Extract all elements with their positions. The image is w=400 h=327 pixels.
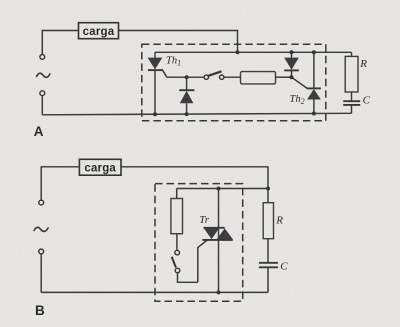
dashed enclosure B: [155, 184, 243, 302]
wire bottom rail B: [41, 291, 268, 293]
node D2 cathode / gate junction: [290, 75, 294, 79]
wire carga B right to R branch: [121, 167, 268, 189]
diode D2: [284, 52, 299, 77]
wire gate diagonal to Th2: [292, 77, 308, 88]
wire carga A right to feed corner: [119, 31, 238, 53]
node gate rail / D1 anode: [185, 75, 189, 79]
switch S contact top B: [175, 250, 180, 255]
svg-text:R: R: [275, 214, 283, 226]
wire switch bottom to gate B: [178, 273, 198, 282]
AC source terminal B top: [39, 200, 44, 205]
svg-text:B: B: [35, 303, 45, 318]
AC source terminal A top: [40, 55, 45, 60]
resistor R B: [263, 203, 273, 239]
load box "carga" B: [79, 159, 121, 175]
dashed enclosure A: [142, 44, 326, 121]
node Th1 cathode on bottom rail: [153, 112, 157, 116]
wire R to C A: [351, 92, 353, 100]
node D1 cathode on bottom rail: [185, 112, 189, 116]
svg-text:C: C: [363, 94, 371, 106]
svg-text:carga: carga: [84, 163, 116, 175]
node triac branch on top rail B: [217, 187, 221, 191]
triac Tr: [202, 189, 233, 293]
AC source terminal B bottom: [39, 249, 44, 254]
node Th2 branch on top rail: [312, 50, 316, 54]
switch S blade B: [172, 257, 176, 268]
wire source A bottom to bottom rail: [41, 96, 43, 115]
svg-text:R: R: [359, 58, 367, 70]
wire source B bottom to bottom rail: [40, 254, 42, 293]
node Th2 anode on bottom rail: [312, 112, 316, 116]
resistor R A: [345, 56, 358, 92]
capacitor C B: [259, 263, 278, 268]
node D2 anode on top rail: [290, 50, 294, 54]
resistor gate A: [241, 72, 276, 84]
wire carga B left to source: [41, 167, 79, 200]
wire top rail B: [177, 188, 268, 190]
wire resistor to node D2 A: [276, 76, 292, 78]
capacitor C A: [343, 101, 360, 105]
node triac on bottom rail B: [217, 290, 221, 294]
load box "carga" A: [79, 23, 119, 39]
wire C to bottom rail B: [267, 268, 269, 292]
wire top rail corner to R A: [351, 52, 353, 56]
svg-text:A: A: [34, 124, 44, 139]
wire switch to resistor A: [224, 76, 241, 78]
thyristor Th1: [148, 52, 167, 114]
wire carga A left to source: [42, 31, 78, 55]
wire corner to gate resistor B: [176, 189, 178, 199]
node R branch on top rail B: [266, 187, 270, 191]
resistor gate B: [171, 199, 183, 234]
wire gate riser B: [198, 240, 208, 282]
switch S contact left A: [204, 75, 208, 79]
thyristor Th2: [307, 52, 321, 113]
node carga feed on top rail A: [236, 50, 240, 54]
wire C to bottom rail A: [351, 106, 353, 114]
AC source tilde A: [36, 73, 50, 77]
switch S blade A: [208, 71, 221, 76]
AC source terminal A bottom: [40, 91, 45, 96]
wire R branch B: [267, 189, 269, 203]
AC source tilde B: [34, 227, 49, 231]
switch S contact bottom B: [175, 268, 180, 273]
switch S contact right A: [220, 75, 224, 79]
wire bottom rail A: [42, 113, 351, 115]
svg-text:Tr: Tr: [199, 214, 210, 226]
svg-text:carga: carga: [83, 26, 115, 38]
wire R to C B: [267, 239, 269, 262]
diode D1: [179, 77, 194, 114]
wire resistor to switch B: [176, 234, 178, 250]
wire gate rail A left: [167, 76, 205, 78]
svg-text:C: C: [280, 261, 288, 273]
wire top rail A: [155, 51, 352, 53]
